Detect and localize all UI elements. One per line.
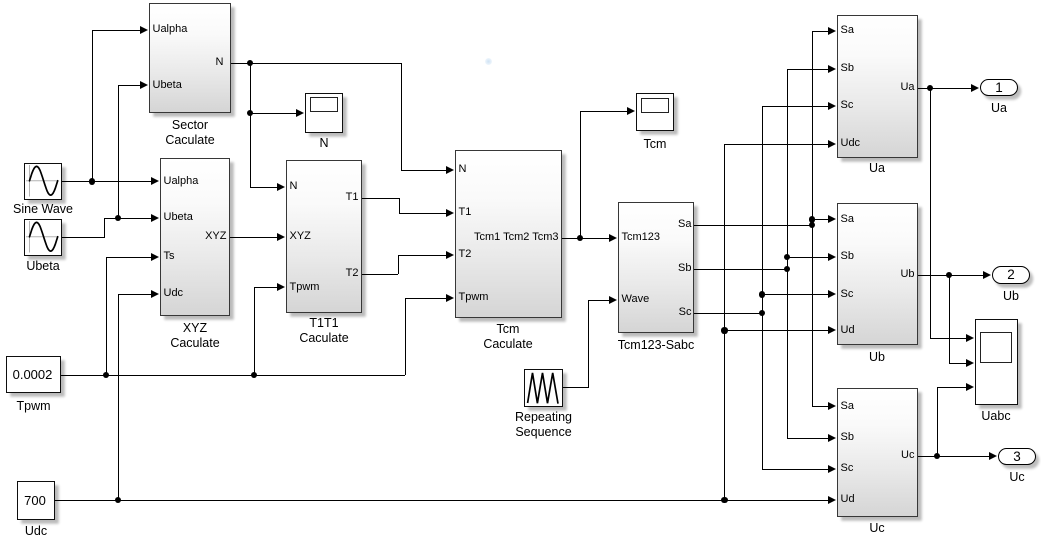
source block Repeating Sequence [524,369,563,407]
wire to Ub Sb [787,257,828,258]
wire to Uc Sb [787,438,828,439]
wire to XYZ Ubeta [104,218,151,219]
wire to Uabc in2 [949,363,966,364]
wire Ub to Uabc [949,275,950,363]
junction Sb feed [784,266,790,272]
wire Sector N out [231,63,401,64]
junction Ubeta net [115,215,121,221]
arrowhead Tcm scope in [627,107,635,115]
arrowhead Tcm123 Wave [609,296,617,304]
label T1T1 Caculate [264,316,384,346]
subsystem block XYZ Caculate [160,158,230,316]
wire to Ua Udc [725,144,829,145]
arrowhead Tcm T2 [446,251,454,259]
arrowhead Sector Ualpha [140,26,148,34]
wire Sc riser [762,106,763,469]
wire to Uc Sc [762,469,828,470]
wire N branch down [250,63,251,187]
junction Sc-Ub [759,291,765,297]
wire to Sector Ubeta [118,85,140,86]
wire to T1T1 Tpwm [254,287,277,288]
arrowhead Ub Sb [828,253,836,261]
arrowhead Tcm T1 [446,209,454,217]
wire Tpwm up to Tcm [405,298,406,375]
scope Uabc [975,319,1018,405]
junction Ub out [946,272,952,278]
arrowhead T1T1 XYZ [277,233,285,241]
outport 1 [980,79,1018,96]
wire to N scope [250,113,296,114]
junction Tcm out [577,235,583,241]
wire XYZ to T1T1 [230,237,277,238]
arrowhead Uabc in2 [966,359,974,367]
wire to Tcm T2 [398,255,446,256]
label Sector Caculate [130,118,250,148]
label Udc [0,524,96,538]
arrowhead XYZ Ubeta [151,214,159,222]
label Ubeta source [0,259,103,274]
wire Udc main [55,500,828,501]
arrowhead Uabc in1 [966,334,974,342]
junction Tpwm-T1T1 [251,372,257,378]
wire N down to Tcm [401,63,402,170]
label Repeating Sequence [484,410,604,440]
scope N [305,93,343,133]
wire Uc out [918,456,989,457]
wire Tpwm main [61,375,405,376]
junction N-scope [247,110,253,116]
wire to Tcm T1 [399,213,446,214]
arrowhead Tcm N [446,166,454,174]
wire Tcm out [562,238,609,239]
label Uabc scope [936,409,1041,424]
arrowhead Ua Udc [828,140,836,148]
wire Sc out [694,313,762,314]
wire to Ub Ud [725,330,829,331]
junction Uc out [934,453,940,459]
artifact [485,58,492,65]
arrowhead Ua Sb [828,65,836,73]
wire to T1T1 N [250,187,277,188]
wire to Tcm Tpwm [405,298,446,299]
label Ua block [817,161,937,176]
wire Ua out [918,88,971,89]
label Tcm scope [595,137,715,152]
wire T1 out [362,198,399,199]
arrowhead T1T1 N [277,183,285,191]
junction Udc-XYZ [115,497,121,503]
source block Ubeta [24,219,62,256]
junction N net [247,60,253,66]
arrowhead outport 2 [983,271,991,279]
wire Ubeta source out [62,237,104,238]
wire to Uabc in1 [930,338,966,339]
wire to Ua Sc [762,106,828,107]
arrowhead Ua Sa [828,27,836,35]
wire Tpwm up to Ts [106,257,107,375]
constant block Tpwm value 0.0002 [6,356,61,393]
arrowhead Uabc in3 [966,383,974,391]
wire to XYZ Ts [106,257,151,258]
arrowhead XYZ Ualpha [151,177,159,185]
label outport Ub [951,289,1041,304]
label Sine Wave [0,202,103,217]
arrowhead Ub Ud [828,326,836,334]
wire to XYZ Udc [118,294,151,295]
outport 2 [992,266,1030,284]
arrowhead Uc Sa [828,402,836,410]
wire Sb out [694,269,787,270]
junction Udc right riser [721,497,727,503]
arrowhead Uc Sc [828,465,836,473]
arrowhead XYZ Udc [151,290,159,298]
wire Sine Wave to XYZ Ualpha [62,181,151,182]
wire RepSeq out [563,387,589,388]
subsystem block T1T1 Caculate [286,160,362,313]
arrowhead outport 1 [971,84,979,92]
label Tcm Caculate [448,322,568,352]
wire to Sector Ualpha [92,30,140,31]
subsystem block Ub [837,203,918,345]
arrowhead Ub Sc [828,290,836,298]
junction Sa-Ub [809,216,815,222]
wire Udc riser [724,144,725,500]
subsystem block Sector Caculate [149,3,231,113]
wire Tpwm up to T1T1 [254,288,255,376]
wire Ub out [918,275,983,276]
junction Tpwm-Ts [103,372,109,378]
wire Ubeta jog up [104,218,105,238]
wire Sb riser [787,69,788,438]
wire to Uc Sa [812,406,828,407]
label XYZ Caculate [135,321,255,351]
subsystem block Tcm Caculate [455,150,562,318]
wire Sa riser [812,31,813,407]
wire Ualpha branch up [92,30,93,182]
wire to Ub Sc [762,294,828,295]
wire Udc up to XYZ [118,294,119,500]
wire T2 out [362,274,398,275]
wire to Tcm scope [580,111,627,112]
wire T2 up [398,255,399,274]
label Tcm123-Sabc [596,338,716,353]
subsystem block Ua [837,15,918,158]
arrowhead Uc Ud [828,496,836,504]
wire to Uabc in3 [937,387,966,388]
wire RepSeq up [588,300,589,388]
subsystem block Tcm123-Sabc [618,202,694,333]
arrowhead XYZ Ts [151,253,159,261]
label Tpwm [0,399,94,414]
junction Sc feed [759,310,765,316]
arrowhead Ub Sa [828,215,836,223]
label outport Uc [957,470,1041,485]
wire Uc to Uabc [937,387,938,456]
label Ub block [817,350,937,365]
wire T1 down [399,198,400,213]
arrowhead Tcm Tpwm [446,294,454,302]
wire to Ua Sb [787,69,828,70]
junction Sa feed [809,222,815,228]
wire Ubeta branch up [118,86,119,219]
arrowhead Sector Ubeta [140,81,148,89]
wire to Wave [588,300,609,301]
junction Ualpha net [89,178,95,184]
wire Ua to Uabc [930,88,931,338]
subsystem block Uc [837,388,918,517]
label Uc block [817,521,937,536]
arrowhead T1T1 Tpwm [277,283,285,291]
wire to Tcm N [401,170,446,171]
arrowhead outport 3 [989,452,997,460]
arrowhead Ua Sc [828,102,836,110]
junction Sb-Ub [784,254,790,260]
arrowhead Uc Sb [828,434,836,442]
junction Ua out [927,85,933,91]
wire up to Tcm scope [580,112,581,239]
arrowhead N scope in [296,109,304,117]
label outport Ua [939,101,1041,116]
scope Tcm [636,93,674,131]
source block Sine Wave [24,163,62,200]
arrowhead Tcm123 in [609,234,617,242]
wire to Ua Sa [812,31,828,32]
wire to Ub Sa [812,219,828,220]
constant block Udc value 700 [17,481,55,520]
label N scope [264,136,384,151]
junction Udc-Ub [721,327,727,333]
wire Sa out [694,225,812,226]
outport 3 [998,448,1036,465]
